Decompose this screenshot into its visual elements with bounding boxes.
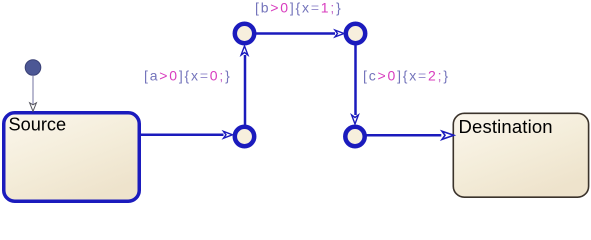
junction J3 xyxy=(235,127,254,146)
wire J1 to J2 xyxy=(256,32,335,35)
arrowhead into J4 xyxy=(352,115,359,124)
arrowhead into J1 xyxy=(241,46,248,55)
wire J2 to J4 xyxy=(354,45,357,115)
state Destination xyxy=(453,113,588,197)
svg-text:[c>0]{x=2;}: [c>0]{x=2;} xyxy=(363,67,450,83)
arrowhead into J3 xyxy=(224,131,233,138)
default transition line xyxy=(32,75,34,105)
wire J3 to J1 xyxy=(244,55,247,125)
wire Source to J3 xyxy=(141,134,224,137)
arrowhead into Destination xyxy=(442,131,454,139)
arrowhead into J2 xyxy=(335,30,344,37)
junction J4 xyxy=(345,127,364,146)
svg-text:[b>0]{x=1;}: [b>0]{x=1;} xyxy=(255,0,343,16)
junction J2 xyxy=(346,24,365,43)
wire J4 to Destination xyxy=(366,134,441,137)
junction J1 xyxy=(235,24,254,43)
svg-text:[a>0]{x=0;}: [a>0]{x=0;} xyxy=(144,67,232,83)
state Source xyxy=(4,113,140,202)
default transition arrowhead xyxy=(30,103,37,112)
default transition dot xyxy=(25,60,41,76)
svg-text:Destination: Destination xyxy=(459,116,553,137)
svg-text:Source: Source xyxy=(9,114,67,134)
